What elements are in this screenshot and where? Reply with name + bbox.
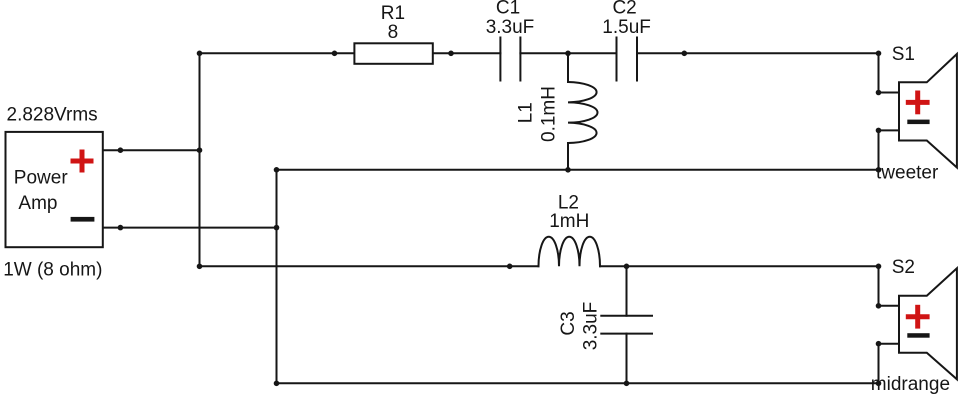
svg-text:C3: C3 <box>558 311 579 335</box>
svg-text:L1: L1 <box>516 102 537 123</box>
resistor R1 body <box>354 43 432 64</box>
junction dot L2 left pin <box>507 264 513 270</box>
junction dot L1 bottom <box>565 167 571 173</box>
svg-text:1W (8 ohm): 1W (8 ohm) <box>3 260 102 281</box>
svg-text:3.3uF: 3.3uF <box>486 17 535 38</box>
inductor L2 coil <box>539 237 601 266</box>
wire C3 top stub <box>626 266 628 315</box>
svg-text:3.3uF: 3.3uF <box>581 302 602 351</box>
junction dot C3 bottom <box>624 381 630 387</box>
junction dot C2 right pin <box>682 51 688 57</box>
svg-text:0.1mH: 0.1mH <box>539 86 560 142</box>
junction dot S2 plus pin <box>876 303 882 309</box>
junction dot S1 top corner <box>876 51 882 57</box>
junction dot top-left corner <box>197 51 203 57</box>
svg-text:S1: S1 <box>892 44 915 65</box>
svg-text:1.5uF: 1.5uF <box>602 17 651 38</box>
junction dot S1 plus pin <box>876 90 882 96</box>
wire midrange feed left of L2 <box>200 265 539 267</box>
junction dot amp plus pin <box>118 147 124 153</box>
svg-text:2.828Vrms: 2.828Vrms <box>7 105 98 126</box>
S1 plus symbol <box>906 91 930 115</box>
junction dot midrange feed corner <box>197 264 203 270</box>
junction dot S2 top corner <box>876 264 882 270</box>
wire amp plus pin <box>101 149 200 151</box>
wire S1 minus pin <box>879 129 900 131</box>
svg-text:R1: R1 <box>381 3 405 24</box>
amp plus symbol <box>71 150 94 173</box>
wire C3 bottom stub <box>626 334 628 384</box>
S1 minus symbol <box>907 120 929 125</box>
capacitor C2 plates <box>616 38 618 81</box>
wire S2 minus pin <box>879 343 900 345</box>
junction dot plus bus joint <box>197 147 203 153</box>
wire top rail left segment <box>200 52 501 54</box>
junction dot amp minus pin <box>118 225 124 231</box>
wire top rail right segment to S1 <box>637 52 879 54</box>
svg-text:Power: Power <box>14 167 69 188</box>
wire S1 minus drop <box>878 130 880 169</box>
junction dot S2 minus pin <box>876 341 882 347</box>
capacitor C1 plates <box>499 38 501 81</box>
wire tweeter return rail <box>277 169 879 171</box>
svg-text:Amp: Amp <box>18 193 57 214</box>
svg-text:midrange: midrange <box>871 374 950 395</box>
wire left vertical bus from amp plus <box>199 53 201 266</box>
junction dot R1 right pin <box>448 51 454 57</box>
wire return vertical bus <box>276 170 278 383</box>
junction dot return bus top <box>274 167 280 173</box>
svg-text:tweeter: tweeter <box>876 162 939 183</box>
svg-text:C2: C2 <box>612 0 636 19</box>
junction dot node C1 C2 L1 <box>565 51 571 57</box>
junction dot minus bus joint <box>274 225 280 231</box>
wire L1 top stub <box>567 53 569 82</box>
wire S1 plus drop <box>878 53 880 92</box>
wire S1 plus pin <box>879 92 900 94</box>
wire top rail between C1 and C2 <box>520 52 616 54</box>
speaker S1 outline <box>899 54 957 168</box>
amp minus symbol <box>71 217 95 222</box>
capacitor C3 plates <box>601 315 652 317</box>
S2 plus symbol <box>906 305 930 329</box>
junction dot return bus bottom <box>274 381 280 387</box>
S2 minus symbol <box>907 333 929 338</box>
junction dot node L2 C3 <box>624 264 630 270</box>
speaker S2 outline <box>899 268 957 379</box>
wire S2 plus drop <box>878 266 880 306</box>
junction dot S1 minus pin <box>876 128 882 134</box>
power amp box <box>6 132 103 247</box>
wire L1 bottom stub <box>567 143 569 170</box>
inductor L1 coil <box>568 82 598 143</box>
wire S2 plus pin <box>879 305 900 307</box>
svg-text:S2: S2 <box>892 257 915 278</box>
junction dot tweeter return corner <box>876 167 882 173</box>
svg-text:C1: C1 <box>496 0 520 19</box>
wire bottom return rail <box>277 382 879 384</box>
svg-text:1mH: 1mH <box>549 211 589 232</box>
wire S2 minus drop <box>878 344 880 384</box>
svg-text:8: 8 <box>388 22 399 43</box>
junction dot bottom rail right corner <box>876 381 882 387</box>
wire amp minus pin <box>101 227 277 229</box>
junction dot R1 left pin <box>332 51 338 57</box>
wire midrange feed right of L2 <box>600 265 879 267</box>
